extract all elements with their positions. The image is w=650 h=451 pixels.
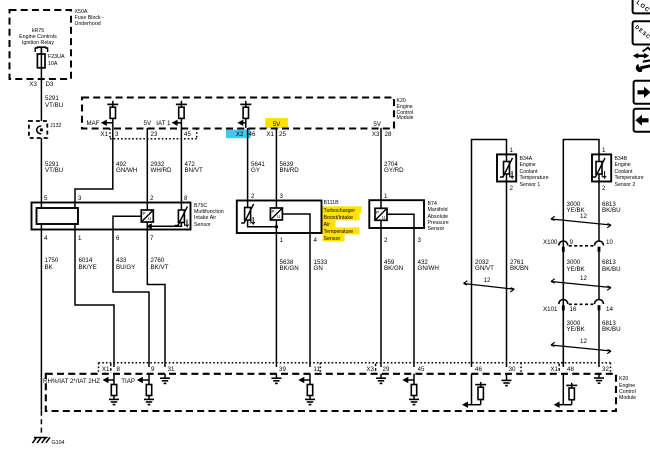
B75C pressure transducer square xyxy=(146,203,148,211)
resistor inside ECM above pin X2-46 xyxy=(245,101,247,107)
svg-text:25: 25 xyxy=(279,131,286,138)
relay KR75 contact symbol xyxy=(35,48,47,52)
wire 6813 BK/BU X101 to ECM 32 xyxy=(598,311,600,368)
svg-text:32: 32 xyxy=(602,366,609,373)
svg-text:2760: 2760 xyxy=(151,257,165,264)
svg-text:1: 1 xyxy=(602,147,606,154)
svg-text:2: 2 xyxy=(602,185,606,192)
svg-text:P: P xyxy=(272,209,275,214)
svg-text:45: 45 xyxy=(184,131,191,138)
signal arrow MAF xyxy=(101,120,107,126)
fuse F23UA 10A xyxy=(40,54,42,79)
wire 3000 YE/BK ECM X1-48 up and over to B34B pin 1 xyxy=(563,140,599,368)
highlight cyan pin label X2 46 xyxy=(226,130,251,139)
svg-text:30: 30 xyxy=(509,366,516,373)
svg-text:Engine: Engine xyxy=(520,162,536,168)
svg-text:3: 3 xyxy=(280,193,284,200)
svg-text:GN: GN xyxy=(314,265,323,272)
svg-text:G104: G104 xyxy=(52,440,65,446)
inline connector X101 left half xyxy=(559,300,568,305)
svg-text:39: 39 xyxy=(279,366,286,373)
svg-text:6813: 6813 xyxy=(602,259,616,266)
svg-text:12: 12 xyxy=(580,275,587,282)
svg-text:WH/RD: WH/RD xyxy=(151,167,172,174)
svg-text:5291: 5291 xyxy=(45,95,59,102)
svg-text:29: 29 xyxy=(383,366,390,373)
wire 3000 YE/BK X100 to X101 xyxy=(562,252,564,300)
svg-text:D3: D3 xyxy=(46,81,54,88)
svg-text:YE/BK: YE/BK xyxy=(567,326,586,333)
svg-text:14: 14 xyxy=(606,306,613,313)
signal arrow at pin X2-46 xyxy=(237,120,243,126)
pin 32 ground xyxy=(598,374,600,378)
ground G104 symbol xyxy=(32,437,50,443)
svg-text:Sensor 2: Sensor 2 xyxy=(615,182,636,188)
pin 29 ground xyxy=(380,374,382,378)
svg-text:MAF: MAF xyxy=(86,120,99,127)
svg-text:23: 23 xyxy=(151,131,158,138)
svg-text:Manifold: Manifold xyxy=(428,207,448,213)
svg-text:2: 2 xyxy=(384,237,388,244)
svg-text:BK/YE: BK/YE xyxy=(79,264,97,271)
svg-text:16: 16 xyxy=(570,306,577,313)
B74 pressure transducer square xyxy=(380,200,382,208)
wire 2032 GN/VT ECM 46 up and over to B34A pin 1 xyxy=(472,140,507,368)
label Turbocharger Boost/Intake Air Temperature Sensor (yellow) xyxy=(323,206,362,213)
B34A thermistor xyxy=(506,154,508,161)
B75C thermistor xyxy=(180,203,182,211)
ECM K20 top dashed box xyxy=(82,98,394,129)
svg-text:VT/BU: VT/BU xyxy=(45,167,63,174)
wire 6813 BK/BU X100 to X101 xyxy=(598,252,600,300)
wire 5291 VT/BU from fuse to splice J132 xyxy=(40,79,42,121)
svg-text:46: 46 xyxy=(475,366,482,373)
svg-text:BK/BU: BK/BU xyxy=(602,266,621,273)
svg-text:X1: X1 xyxy=(550,366,558,373)
svg-text:Sensor: Sensor xyxy=(324,236,341,242)
pin 46 signal arrow and pull-up resistor xyxy=(471,374,473,405)
svg-text:5V: 5V xyxy=(273,121,281,128)
pin 11 pull resistor and ground xyxy=(309,374,311,385)
svg-text:BK/BU: BK/BU xyxy=(602,207,621,214)
svg-text:Boost/Intake: Boost/Intake xyxy=(324,215,353,221)
crossover 12 tier 3 xyxy=(551,345,611,351)
svg-text:X1: X1 xyxy=(102,366,110,373)
svg-text:28: 28 xyxy=(385,131,392,138)
svg-text:10A: 10A xyxy=(48,61,58,67)
signal arrow at pin 45 xyxy=(402,377,408,383)
svg-text:BK/GN: BK/GN xyxy=(384,265,403,272)
svg-text:X1: X1 xyxy=(100,131,108,138)
X101 dashed link xyxy=(569,303,594,305)
svg-text:B111B: B111B xyxy=(324,200,340,206)
svg-text:Temperature: Temperature xyxy=(324,229,354,235)
svg-text:BK/BN: BK/BN xyxy=(510,265,529,272)
svg-text:P: P xyxy=(376,210,379,215)
svg-text:4: 4 xyxy=(314,237,318,244)
svg-text:2: 2 xyxy=(510,185,514,192)
inline connector X100 left half xyxy=(559,241,568,246)
pin 30 ground xyxy=(506,374,508,380)
svg-text:Air: Air xyxy=(324,222,331,228)
svg-text:X100: X100 xyxy=(543,239,558,246)
button previous page (left arrow) xyxy=(634,109,650,132)
svg-text:9: 9 xyxy=(570,239,574,246)
svg-text:P: P xyxy=(143,211,146,216)
svg-text:X101: X101 xyxy=(543,306,558,313)
wire 472 BN/VT ECM 45 to B75C pin 8 xyxy=(180,128,182,203)
svg-text:X3: X3 xyxy=(29,81,37,88)
wire 5639 BN/RD ECM X1-25 to B111B pin 3 xyxy=(275,128,277,201)
svg-text:12: 12 xyxy=(580,338,587,345)
svg-text:BK/GN: BK/GN xyxy=(280,265,299,272)
B74 transducer output to pin 3 xyxy=(387,214,414,228)
svg-text:BK/BU: BK/BU xyxy=(602,326,621,333)
svg-text:BN/VT: BN/VT xyxy=(185,167,203,174)
svg-text:3: 3 xyxy=(115,131,119,138)
svg-text:6: 6 xyxy=(116,235,120,242)
svg-text:IAT 1: IAT 1 xyxy=(156,120,171,127)
svg-text:433: 433 xyxy=(116,257,127,264)
svg-text:11: 11 xyxy=(314,366,321,373)
B75C transducer to pin 7 xyxy=(146,222,148,230)
svg-text:RH%/IAT 2*/IAT 2HZ: RH%/IAT 2*/IAT 2HZ xyxy=(43,378,100,385)
svg-text:1750: 1750 xyxy=(45,257,59,264)
wire 1750 BK B75C pin 4 to ground G104 xyxy=(40,230,42,411)
svg-text:Module: Module xyxy=(397,115,414,121)
svg-text:BN/RD: BN/RD xyxy=(280,167,300,174)
splice J132 dashed box xyxy=(29,121,47,138)
svg-text:6014: 6014 xyxy=(79,257,93,264)
svg-text:3: 3 xyxy=(418,237,422,244)
svg-text:9: 9 xyxy=(151,366,155,373)
crossover 12 tier 1 xyxy=(551,219,611,225)
svg-text:7: 7 xyxy=(150,235,154,242)
svg-text:1: 1 xyxy=(510,147,514,154)
svg-text:4: 4 xyxy=(44,235,48,242)
wire 433 BU/GY B75C pin 6 to ECM 9 xyxy=(113,230,149,368)
svg-text:Sensor: Sensor xyxy=(194,222,211,228)
svg-text:8: 8 xyxy=(184,195,188,202)
wire 492 GN/WH ECM X1-3 to B75C pin 3 xyxy=(75,128,113,203)
svg-text:12: 12 xyxy=(484,277,491,284)
svg-text:31: 31 xyxy=(168,366,175,373)
svg-text:Temperature: Temperature xyxy=(520,175,549,181)
svg-text:12: 12 xyxy=(580,213,587,220)
fuse block X50A dashed box xyxy=(10,10,72,79)
B111B thermistor return to pin 1 junction xyxy=(248,220,277,227)
inline connector X100 right half xyxy=(595,241,604,246)
pin 45 pull resistor and ground xyxy=(413,374,415,385)
signal arrow IAT 1 xyxy=(172,120,178,126)
svg-text:Engine: Engine xyxy=(615,162,631,168)
wire 5638 BK/GN B111B pin 1 to ECM 39 xyxy=(275,233,277,367)
wire 432 GN/WH B74 pin 3 to ECM 45 xyxy=(413,228,415,367)
svg-text:GN/WH: GN/WH xyxy=(116,167,137,174)
B111B transducer output to pin 4 xyxy=(282,214,310,233)
sensor B74 box xyxy=(369,200,424,228)
svg-text:GN/VT: GN/VT xyxy=(475,265,494,272)
svg-text:5V: 5V xyxy=(144,120,152,127)
svg-text:3000: 3000 xyxy=(567,259,581,266)
sensor B34A box xyxy=(497,154,516,181)
ECM K20 bottom dashed box xyxy=(46,374,616,411)
wire 6813 BK/BU B34B pin 2 down xyxy=(598,182,600,242)
svg-text:1: 1 xyxy=(384,193,388,200)
highlight yellow 5V at pin X1 25 xyxy=(265,118,288,128)
sensor B111B box xyxy=(237,201,322,234)
svg-text:Ignition Relay: Ignition Relay xyxy=(22,40,54,46)
pin 9 pull resistor and ground xyxy=(148,374,150,385)
svg-text:3: 3 xyxy=(78,195,82,202)
svg-text:45: 45 xyxy=(418,366,425,373)
svg-text:2: 2 xyxy=(150,195,154,202)
svg-text:J132: J132 xyxy=(50,123,62,129)
wire 5641 GY ECM X2-46 to B111B pin 2 xyxy=(247,128,249,201)
svg-text:Turbocharger: Turbocharger xyxy=(324,208,356,214)
crossover 12 on B34A wires xyxy=(464,284,515,290)
svg-text:1: 1 xyxy=(78,235,82,242)
B75C internal wires pins 5,3 to element xyxy=(40,203,42,209)
svg-text:8: 8 xyxy=(117,366,121,373)
sensor B75C box xyxy=(32,203,191,230)
svg-text:BK: BK xyxy=(45,264,54,271)
crossover 12 tier 2 xyxy=(551,282,611,288)
B75C thermistor return arrow to pin 7 wire xyxy=(151,223,181,227)
B111B thermistor xyxy=(247,201,249,208)
svg-text:2: 2 xyxy=(251,193,255,200)
svg-text:X3: X3 xyxy=(372,131,380,138)
resistor inside ECM above pin X1-3 xyxy=(112,101,114,107)
wire 459 BK/GN B74 pin 2 to ECM X3-29 xyxy=(380,228,382,367)
svg-text:X1: X1 xyxy=(266,131,274,138)
pin 48 signal arrow and pull-up resistor xyxy=(562,374,564,405)
wire 2761 BK/BN B34A pin 2 to ECM 30 xyxy=(506,182,508,368)
resistor inside ECM above pin X1-45 xyxy=(180,101,182,107)
splice J132 symbol xyxy=(37,126,42,134)
svg-text:U: U xyxy=(277,214,280,219)
svg-text:BU/GY: BU/GY xyxy=(116,264,135,271)
pin 39 ground xyxy=(275,374,277,378)
wire 2932 WH/RD ECM 23 to B75C pin 2 xyxy=(146,128,148,203)
sensor B34B box xyxy=(592,154,611,181)
signal arrow at pin 11 xyxy=(298,377,304,383)
svg-text:F23UA: F23UA xyxy=(48,54,65,60)
svg-text:Sensor 1: Sensor 1 xyxy=(520,182,541,188)
button LOC xyxy=(633,0,650,13)
svg-text:X2: X2 xyxy=(236,131,244,138)
wire 6014 BK/YE B75C pin 1 to ECM X1-8 xyxy=(75,230,114,368)
svg-text:U: U xyxy=(382,215,385,220)
B75C heater element rectangle xyxy=(37,208,79,224)
svg-text:46: 46 xyxy=(249,131,256,138)
ECM top connector strip dotted xyxy=(110,138,197,140)
svg-text:5V: 5V xyxy=(373,121,381,128)
svg-text:Underhood: Underhood xyxy=(75,21,101,27)
wrench double-arrow icon xyxy=(643,48,650,52)
pin 8 pull resistor and ground xyxy=(113,374,115,385)
svg-text:Module: Module xyxy=(619,395,636,401)
svg-text:U: U xyxy=(148,216,151,221)
B111B pressure transducer square xyxy=(275,201,277,209)
svg-text:K20: K20 xyxy=(619,376,628,382)
svg-text:X3: X3 xyxy=(366,366,374,373)
ECM K20 bottom connector strip dotted xyxy=(99,362,611,364)
wire 3000 YE/BK X101 to ECM X1-48 xyxy=(562,311,564,368)
svg-text:GN/WH: GN/WH xyxy=(418,265,439,272)
svg-text:5: 5 xyxy=(44,195,48,202)
svg-text:BK/VT: BK/VT xyxy=(151,264,169,271)
B75C pin 6 internal wire to transducer xyxy=(113,216,141,229)
svg-text:10: 10 xyxy=(606,239,613,246)
svg-text:Temperature: Temperature xyxy=(615,175,644,181)
wire 2760 BK/VT B75C pin 7 to ECM 31 xyxy=(147,230,165,368)
inline connector X101 right half xyxy=(595,300,604,305)
svg-text:GY/RD: GY/RD xyxy=(384,167,404,174)
button DESC xyxy=(633,21,650,44)
svg-text:YE/BK: YE/BK xyxy=(567,266,586,273)
X100 dashed link xyxy=(569,245,594,247)
svg-text:1: 1 xyxy=(280,237,284,244)
wire 5291 VT/BU from J132 to sensor B75C pin 5 xyxy=(40,138,42,203)
svg-text:TIAP: TIAP xyxy=(121,378,135,385)
B34B thermistor xyxy=(598,154,600,161)
wire 1533 GN B111B pin 4 to ECM 11 xyxy=(309,233,311,367)
svg-text:Intake Air: Intake Air xyxy=(194,215,216,221)
svg-text:Sensor: Sensor xyxy=(428,226,445,232)
pin 31 ground xyxy=(164,374,166,378)
svg-text:VT/BU: VT/BU xyxy=(45,102,63,109)
button next page (right arrow) xyxy=(634,81,650,104)
wire 2704 GY/RD ECM X3-28 to B74 pin 1 xyxy=(380,128,382,200)
svg-text:GY: GY xyxy=(251,167,260,174)
svg-text:48: 48 xyxy=(567,366,574,373)
